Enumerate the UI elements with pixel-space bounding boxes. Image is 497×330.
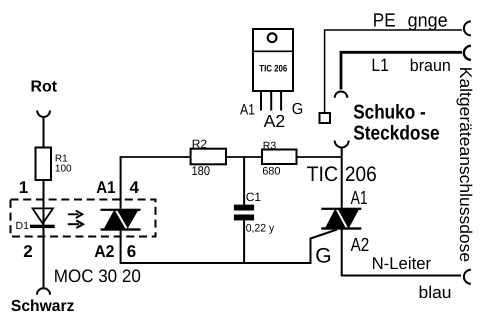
svg-text:Kaltgeräteanschlussdose: Kaltgeräteanschlussdose xyxy=(456,67,475,262)
wire L1 rail xyxy=(341,52,462,89)
TO-220 mounting hole xyxy=(268,33,277,42)
connector braun (open-right arc) xyxy=(464,46,471,60)
svg-text:TIC 206: TIC 206 xyxy=(259,63,287,74)
wire top rail to R2 xyxy=(120,156,191,158)
svg-text:MOC 30 20: MOC 30 20 xyxy=(54,266,141,286)
svg-text:100: 100 xyxy=(55,164,72,175)
svg-text:6: 6 xyxy=(127,242,136,261)
svg-text:braun: braun xyxy=(410,56,451,75)
triac TIC206 bars xyxy=(321,208,361,210)
svg-text:G: G xyxy=(292,101,304,118)
light coupling arrow upper xyxy=(68,213,79,215)
svg-text:PE: PE xyxy=(373,11,396,32)
resistor R3 xyxy=(262,150,297,165)
svg-text:Schwarz: Schwarz xyxy=(11,298,75,315)
svg-text:D1: D1 xyxy=(16,220,30,232)
svg-text:A2: A2 xyxy=(351,235,370,256)
svg-text:1: 1 xyxy=(19,178,28,197)
wire R1 to D1 anode, through LED, to Schwarz jack xyxy=(43,180,45,288)
connector Schwarz (open-bottom arc) xyxy=(37,288,50,295)
connector blau (open-right arc) xyxy=(464,270,471,284)
svg-text:gnge: gnge xyxy=(408,10,448,31)
LED D1 cathode bar xyxy=(30,225,55,228)
svg-text:N-Leiter: N-Leiter xyxy=(372,254,432,273)
TO-220 leg G xyxy=(280,91,282,111)
svg-text:R2: R2 xyxy=(192,137,208,151)
TO-220 package body xyxy=(253,29,293,91)
Schuko L1 contact (open-bottom arc) xyxy=(335,92,348,98)
resistor R2 xyxy=(191,149,226,165)
connector PE socket (open-right arc) xyxy=(464,21,471,35)
svg-text:680: 680 xyxy=(262,165,280,177)
opto-triac right triangle xyxy=(117,210,139,229)
plug contact (open-top arc) xyxy=(335,141,349,148)
svg-text:blau: blau xyxy=(419,283,452,302)
TO-220 leg A2 xyxy=(270,91,272,111)
svg-text:4: 4 xyxy=(130,178,140,197)
svg-text:G: G xyxy=(315,245,331,268)
svg-text:Rot: Rot xyxy=(31,78,58,95)
capacitor C1 plates xyxy=(234,205,254,211)
wire PE rail xyxy=(325,30,462,113)
svg-text:A2: A2 xyxy=(94,242,114,261)
opto-triac left triangle xyxy=(104,210,125,229)
svg-text:Schuko -: Schuko - xyxy=(353,101,426,123)
svg-text:206: 206 xyxy=(345,163,377,186)
svg-text:0,22 y: 0,22 y xyxy=(246,223,275,235)
Schuko PE contact square xyxy=(320,113,331,123)
TO-220 leg A1 xyxy=(260,91,262,111)
wire R3 to mains node xyxy=(297,156,342,158)
triac right triangle xyxy=(338,209,360,229)
wire MOC pin 4 to top rail xyxy=(120,157,122,209)
svg-text:R3: R3 xyxy=(263,140,277,152)
wire mains vertical to triac A1 xyxy=(341,149,343,209)
TO-220 tab divider xyxy=(253,50,293,52)
connector Rot (banana jack, open-top arc) xyxy=(37,111,50,117)
wire triac A2 to N rail xyxy=(342,230,461,276)
wire MOC pin 6 down xyxy=(121,230,337,264)
svg-text:A2: A2 xyxy=(264,111,286,131)
optocoupler MOC3020 dashed outline xyxy=(11,200,156,237)
svg-text:L1: L1 xyxy=(371,55,389,75)
wire R2 to R3 xyxy=(226,156,262,158)
svg-text:C1: C1 xyxy=(246,190,262,204)
svg-text:Steckdose: Steckdose xyxy=(353,123,440,145)
wire C1 bottom lead xyxy=(243,220,245,264)
LED D1 (triangle) xyxy=(33,208,54,223)
resistor R1 xyxy=(36,148,52,181)
svg-text:A1: A1 xyxy=(240,101,255,118)
svg-text:TIC: TIC xyxy=(307,163,339,186)
wire Rot jack to R1 xyxy=(43,117,45,148)
svg-text:2: 2 xyxy=(23,242,32,261)
wire C1 top lead xyxy=(243,157,245,205)
svg-text:180: 180 xyxy=(192,164,211,178)
triac left triangle xyxy=(325,209,346,229)
light coupling arrow lower xyxy=(68,223,79,225)
svg-text:A1: A1 xyxy=(351,188,368,209)
svg-text:A1: A1 xyxy=(96,178,115,197)
opto-triac bars xyxy=(101,209,141,211)
